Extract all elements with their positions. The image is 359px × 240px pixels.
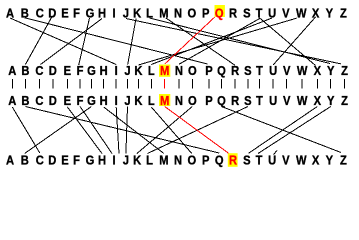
svg-text:F: F — [73, 153, 80, 168]
wire J->Z — [126, 19, 341, 64]
svg-text:G: G — [86, 153, 95, 168]
wire T->X — [259, 18, 315, 66]
svg-text:O: O — [187, 153, 196, 168]
wires rotor 2 (row3 to row4) — [12, 107, 341, 154]
tick A — [11, 79, 13, 89]
svg-text:M: M — [160, 63, 169, 78]
svg-text:C: C — [36, 153, 44, 168]
svg-text:L: L — [148, 93, 155, 108]
wire H->C — [41, 19, 103, 65]
svg-text:N: N — [174, 6, 182, 21]
svg-text:A: A — [8, 93, 16, 108]
svg-text:C: C — [35, 93, 43, 108]
wire S->L — [147, 107, 248, 154]
svg-text:F: F — [77, 93, 84, 108]
wire W->K — [138, 18, 296, 65]
svg-text:P: P — [205, 93, 212, 108]
svg-text:C: C — [35, 63, 43, 78]
svg-text:W: W — [296, 153, 307, 168]
svg-text:D: D — [49, 63, 57, 78]
wire D->B — [25, 18, 51, 65]
svg-text:X: X — [312, 153, 319, 168]
alphabet row 4 (output, R red) — [6, 153, 347, 168]
wire J->J — [126, 107, 128, 154]
straight-through ticks (row2 to row3) — [12, 79, 344, 89]
tick Z — [344, 79, 346, 89]
wire K->J — [128, 19, 136, 65]
highlight box R row4 — [228, 153, 238, 167]
tick N — [178, 79, 180, 89]
svg-text:Y: Y — [326, 153, 333, 168]
tick I — [115, 79, 117, 89]
svg-text:W: W — [297, 63, 308, 78]
tick X — [316, 79, 318, 89]
svg-text:K: K — [133, 6, 141, 21]
svg-text:L: L — [146, 153, 153, 168]
accent stub over U row4 — [274, 151, 278, 155]
svg-text:F: F — [73, 6, 80, 21]
svg-text:Z: Z — [341, 63, 348, 78]
svg-text:P: P — [205, 63, 212, 78]
wires rotor 1 (row1 to row2) — [10, 17, 341, 66]
svg-text:H: H — [100, 63, 108, 78]
tick F — [79, 79, 81, 89]
svg-text:E: E — [64, 63, 71, 78]
svg-text:X: X — [314, 63, 321, 78]
svg-text:N: N — [175, 63, 183, 78]
tick R — [234, 79, 236, 89]
svg-text:M: M — [160, 93, 169, 108]
svg-text:B: B — [21, 93, 29, 108]
wire Y->T — [258, 107, 331, 154]
svg-text:B: B — [21, 153, 29, 168]
svg-text:I: I — [115, 93, 118, 108]
tick V — [286, 79, 288, 89]
svg-text:Z: Z — [340, 6, 347, 21]
tick S — [247, 79, 249, 89]
wire F->I — [80, 107, 112, 154]
svg-text:Y: Y — [327, 63, 334, 78]
svg-text:R: R — [231, 93, 239, 108]
svg-text:H: H — [100, 93, 108, 108]
tick P — [208, 79, 210, 89]
svg-text:V: V — [282, 153, 289, 168]
highlight box Q row1 — [215, 5, 225, 17]
svg-text:Y: Y — [327, 93, 334, 108]
tick O — [191, 79, 193, 89]
svg-text:E: E — [64, 93, 71, 108]
svg-text:T: T — [256, 93, 263, 108]
svg-text:Q: Q — [217, 93, 226, 108]
tick C — [38, 79, 40, 89]
svg-text:C: C — [36, 6, 44, 21]
svg-text:S: S — [244, 63, 251, 78]
tick G — [90, 79, 92, 89]
svg-text:Q: Q — [215, 6, 224, 21]
tick B — [24, 79, 26, 89]
svg-text:K: K — [134, 63, 142, 78]
svg-text:I: I — [112, 153, 115, 168]
svg-text:Z: Z — [340, 153, 347, 168]
svg-text:E: E — [61, 6, 68, 21]
svg-text:B: B — [21, 63, 29, 78]
red wire Q->M — [165, 17, 215, 64]
svg-text:P: P — [202, 153, 209, 168]
highlight box M row2 — [159, 65, 170, 77]
svg-text:D: D — [49, 93, 57, 108]
svg-text:D: D — [48, 6, 56, 21]
svg-text:I: I — [112, 6, 115, 21]
svg-text:U: U — [269, 93, 277, 108]
wire M->R — [166, 18, 235, 65]
svg-text:O: O — [188, 63, 197, 78]
svg-text:V: V — [283, 63, 290, 78]
svg-text:U: U — [268, 153, 276, 168]
svg-text:H: H — [98, 153, 106, 168]
tick E — [66, 79, 68, 89]
wire B->P — [25, 18, 208, 64]
svg-text:S: S — [243, 6, 250, 21]
svg-text:X: X — [312, 6, 319, 21]
svg-text:E: E — [61, 153, 68, 168]
svg-text:G: G — [87, 63, 96, 78]
wire O->K — [137, 107, 192, 154]
svg-text:S: S — [244, 93, 251, 108]
wire G->F — [79, 18, 90, 65]
svg-text:U: U — [269, 63, 277, 78]
alphabet row 1 (input, Q red) — [6, 6, 347, 21]
svg-text:D: D — [48, 153, 56, 168]
svg-text:K: K — [133, 153, 141, 168]
svg-text:A: A — [6, 153, 14, 168]
svg-text:Y: Y — [326, 6, 333, 21]
tick Y — [330, 79, 332, 89]
tick H — [103, 79, 105, 89]
svg-text:T: T — [256, 153, 263, 168]
wire H->M — [104, 107, 164, 154]
highlight box M row3 — [159, 94, 170, 106]
svg-text:K: K — [134, 93, 142, 108]
svg-text:G: G — [86, 6, 95, 21]
svg-text:R: R — [229, 153, 237, 168]
wire L->O — [151, 107, 192, 154]
wire L->Y — [150, 18, 331, 64]
wire U->L — [151, 18, 272, 65]
tick U — [272, 79, 274, 89]
svg-text:S: S — [243, 153, 250, 168]
wire A->C — [12, 107, 40, 153]
wire A->I — [10, 18, 116, 65]
svg-text:G: G — [87, 93, 96, 108]
alphabet row 3 (M red) — [8, 93, 348, 108]
svg-text:J: J — [124, 93, 130, 108]
svg-text:I: I — [115, 63, 118, 78]
svg-text:F: F — [77, 63, 84, 78]
svg-text:M: M — [159, 153, 168, 168]
svg-text:Q: Q — [215, 153, 224, 168]
tick L — [150, 79, 152, 89]
svg-text:L: L — [148, 63, 155, 78]
tick K — [137, 79, 139, 89]
wire E->H — [67, 107, 102, 154]
svg-text:P: P — [202, 6, 209, 21]
svg-text:J: J — [124, 63, 130, 78]
wire X->S — [249, 107, 318, 154]
svg-text:N: N — [175, 93, 183, 108]
svg-text:T: T — [256, 63, 263, 78]
red tick M — [164, 79, 166, 89]
wire Q->Z — [222, 107, 342, 153]
tick W — [301, 79, 303, 89]
svg-text:Q: Q — [217, 63, 226, 78]
svg-text:O: O — [188, 93, 197, 108]
wire G->B — [25, 107, 92, 154]
svg-text:J: J — [123, 153, 129, 168]
svg-text:R: R — [231, 63, 239, 78]
tick T — [258, 79, 260, 89]
tick J — [127, 79, 129, 89]
wire X->U — [273, 17, 316, 65]
tick Q — [221, 79, 223, 89]
svg-text:W: W — [297, 93, 308, 108]
svg-text:X: X — [314, 93, 321, 108]
wire T->N — [179, 18, 260, 64]
svg-text:R: R — [229, 6, 237, 21]
svg-text:W: W — [296, 6, 307, 21]
alphabet row 2 (M red) — [8, 63, 348, 78]
wire I->I — [116, 107, 119, 154]
svg-text:N: N — [174, 153, 182, 168]
svg-text:A: A — [8, 63, 16, 78]
svg-text:V: V — [283, 93, 290, 108]
red wire M->R — [165, 107, 229, 154]
svg-text:Z: Z — [341, 93, 348, 108]
svg-text:O: O — [187, 6, 196, 21]
tick D — [52, 79, 54, 89]
svg-text:V: V — [282, 6, 289, 21]
wire B->Q — [25, 107, 219, 154]
